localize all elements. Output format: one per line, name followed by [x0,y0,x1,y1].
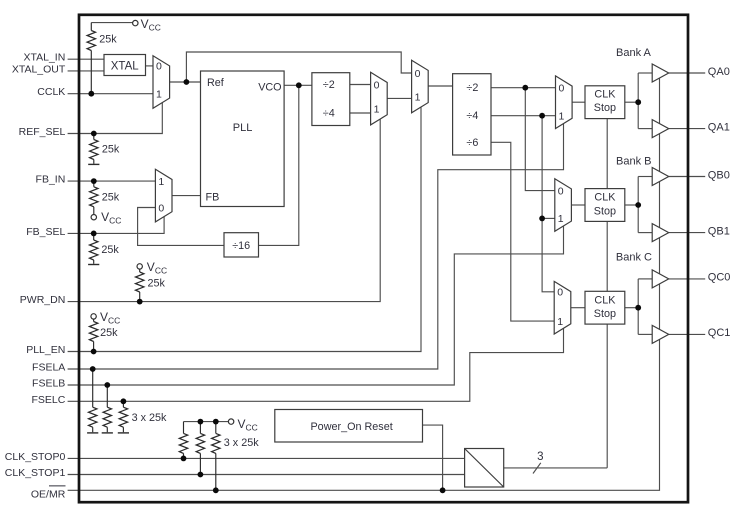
wire bank C buffer feed [637,279,639,335]
wire bypass mux output to output divider [428,85,452,87]
svg-text:PWR_DN: PWR_DN [20,294,66,306]
resistor 25k CCLK pullup [87,23,95,94]
svg-text:FSELA: FSELA [32,362,65,374]
wire div4 output to mux 1-port [350,112,371,114]
resistor 25k FB_SEL pulldown [89,233,97,263]
wire bank B mux to CLK Stop [571,204,585,206]
wire CLK Stop A output [625,101,638,103]
svg-text:QA1: QA1 [708,121,730,133]
wire XTAL_IN input [68,58,104,60]
svg-text:3 x 25k: 3 x 25k [224,437,259,449]
bank A select mux [556,76,573,129]
wire fb mux output to PLL FB input [172,195,201,197]
wire QB0 output [669,176,706,178]
svg-text:0: 0 [557,287,563,299]
node FB_IN junction [91,178,97,184]
ground FSELA [87,432,98,434]
resistor 25k REF_SEL pulldown [90,134,98,164]
svg-text:0: 0 [558,185,564,197]
clock stop synchronizer block [465,449,504,488]
Vcc terminal clock stop pullups [228,419,233,424]
svg-text:REF_SEL: REF_SEL [19,126,66,138]
svg-text:XTAL_IN: XTAL_IN [23,52,65,64]
CLK Stop block bank B [585,189,625,222]
wire bank A buffer feed [637,73,639,129]
svg-text:÷4: ÷4 [466,110,478,122]
svg-text:25k: 25k [100,327,118,339]
svg-text:VCO: VCO [258,81,281,93]
CLK Stop block bank C [585,291,625,324]
svg-text:÷6: ÷6 [466,137,478,149]
svg-text:0: 0 [415,68,421,80]
node VCO output junction [296,82,302,88]
wire CLK Stop C output [625,307,638,309]
XTAL oscillator block [104,55,146,76]
wire reference clock bypass to mux 0-port [186,52,411,82]
svg-text:1: 1 [559,111,565,123]
wire CLK_STOP0 to synchronizer [68,457,465,459]
ground REF_SEL [88,163,99,165]
svg-text:÷16: ÷16 [232,240,250,252]
resistor 25k PWR_DN pullup [136,269,144,301]
svg-text:3 x 25k: 3 x 25k [132,412,167,424]
wire div4 branch to bank C mux 0-port [542,116,554,292]
svg-text:FB_IN: FB_IN [36,174,66,186]
resistor 25k FB_IN pullup [90,181,98,214]
output buffer QB0 [652,168,669,186]
wire pullup rail to Vcc [184,421,229,423]
ground FB_SEL [88,264,99,266]
wire clock stop control bus vertical [606,119,608,468]
svg-text:FSELB: FSELB [32,378,65,390]
node CLK_STOP1 junction [198,472,204,478]
feedback divider div16 [224,233,259,257]
bus width slash [533,463,541,474]
PLL block U1 [201,71,285,207]
svg-text:PLL_EN: PLL_EN [26,344,65,356]
resistor 25k FSELA pulldown [88,369,96,432]
svg-text:FSELC: FSELC [31,394,65,406]
svg-text:Stop: Stop [594,102,616,114]
svg-text:1: 1 [158,176,164,188]
svg-text:Power_On Reset: Power_On Reset [310,421,392,433]
svg-text:Bank B: Bank B [616,156,651,168]
svg-text:3: 3 [537,451,543,463]
wire CCLK input to mux 1-port [68,93,153,95]
wire PLL_EN to bypass mux select [68,107,421,351]
Vcc terminal CCLK pullup [133,20,138,25]
svg-text:Stop: Stop [594,308,616,320]
wire vco divider mux output to bypass mux 1-port [387,97,411,99]
feedback mux (FB_IN/div16) [155,169,172,222]
wire CLK_STOP1 to synchronizer [68,474,465,476]
output buffer QA0 [652,64,669,82]
wire bank A mux to CLK Stop [572,101,585,103]
svg-text:FB: FB [206,192,220,204]
node REF_SEL junction [91,131,97,137]
node bank C buffer junction [635,305,641,311]
resistor 25k OE/MR pullup [212,422,220,491]
svg-text:25k: 25k [102,192,120,204]
wire bank B buffer feed [637,177,639,233]
wire Power_On Reset output to OE/MR line [423,425,443,490]
svg-text:0: 0 [374,79,380,91]
chip outline border [79,15,688,502]
output buffer QA1 [652,120,669,138]
svg-text:CLK_STOP1: CLK_STOP1 [5,467,66,479]
PLL bypass mux [412,60,429,113]
wire to QB1 buffer [638,232,652,234]
Vcc terminal FB_IN pullup [91,215,96,220]
svg-text:0: 0 [158,202,164,214]
node CCLK pullup junction [88,91,94,97]
svg-text:XTAL: XTAL [111,60,140,72]
wire QC0 output [669,278,706,280]
svg-text:1: 1 [374,103,380,115]
svg-text:25k: 25k [102,143,120,155]
wire QC1 output [669,333,706,335]
wire QA0 output [669,72,706,74]
VCO divider block div2/div4 [312,73,350,126]
node PWR_DN junction [137,299,143,305]
node FSELA junction [90,366,96,372]
VCO divider mux [371,72,388,125]
svg-text:QA0: QA0 [708,66,730,78]
svg-text:QC1: QC1 [708,327,731,339]
svg-text:÷2: ÷2 [323,79,335,91]
svg-text:QC0: QC0 [708,272,731,284]
wire XTAL osc output to ref mux 0-port [146,65,154,67]
svg-text:CCLK: CCLK [37,86,65,98]
svg-text:CLK: CLK [594,192,616,204]
Vcc terminal PWR_DN pullup [137,264,142,269]
wire ref mux output to PLL Ref input [170,81,201,83]
output divider block div2/div4/div6 [453,74,491,155]
resistor 25k FSELC pulldown [119,401,127,432]
svg-text:PLL: PLL [233,122,253,134]
svg-text:Stop: Stop [594,205,616,217]
svg-text:25k: 25k [99,34,117,46]
svg-text:Ref: Ref [207,77,225,89]
wire bank C mux to CLK Stop [571,307,585,309]
wire output div4 to bank A mux 1-port [491,115,556,117]
wire PWR_DN to vco divider mux select [68,119,381,301]
svg-text:OE/MR: OE/MR [31,488,66,500]
reference mux (XTAL/CCLK) [153,56,170,109]
wire FSELA to bank A mux select [68,123,564,369]
bank B select mux [555,179,572,232]
output buffer QC1 [652,325,669,343]
node POR to OE/MR junction [440,487,446,493]
svg-text:25k: 25k [148,277,166,289]
output buffer QB1 [652,224,669,242]
node CLK_STOP0 junction [181,456,187,462]
node pullup rail junction 2 [213,419,219,425]
svg-text:CLK_STOP0: CLK_STOP0 [5,451,66,463]
Power_On Reset block [275,410,423,443]
wire XTAL_OUT input [68,70,104,72]
bank C select mux [554,281,571,334]
wire VCO output to divider [284,84,312,86]
wire synchronizer output bus [504,467,608,469]
wire to QC0 buffer [638,278,652,280]
wire CLK Stop B output [625,204,638,206]
wire to QA1 buffer [638,128,652,130]
node reference clock junction [184,79,190,85]
wire to QA0 buffer [638,72,652,74]
svg-text:FB_SEL: FB_SEL [26,226,65,238]
wire CCLK pullup to Vcc [91,22,132,24]
wire QB1 output [669,232,706,234]
wire div4 branch to bank B mux 1-port [542,217,555,219]
wire FSELB to bank B mux select [68,226,564,385]
output buffer QC0 [652,270,669,288]
wire REF_SEL to ref mux select [68,102,163,134]
node bank A buffer junction [635,99,641,105]
resistor 25k PLL_EN pullup [89,319,97,351]
svg-text:0: 0 [156,61,162,73]
svg-text:Bank C: Bank C [616,252,652,264]
wire FB_IN to fb mux 1-port [68,180,156,182]
svg-text:1: 1 [415,92,421,104]
svg-text:CLK: CLK [594,294,616,306]
svg-text:1: 1 [557,316,563,328]
svg-text:÷2: ÷2 [466,82,478,94]
svg-text:1: 1 [558,213,564,225]
CLK Stop block bank A [585,86,625,119]
wire to QC1 buffer [638,333,652,335]
svg-text:QB0: QB0 [708,169,730,181]
node bank B buffer junction [635,202,641,208]
node div2 branch junction [522,85,528,91]
node FB_SEL junction [91,231,97,237]
ground FSELB [102,432,113,434]
resistor 25k FSELB pulldown [103,385,111,432]
node pullup rail junction 1 [198,419,204,425]
svg-text:XTAL_OUT: XTAL_OUT [12,63,66,75]
wire FSELC to bank C mux select [68,328,564,401]
node div4 bank B junction [539,216,545,222]
resistor 25k CLK_STOP0 pullup [179,422,187,459]
pin label OE/MR with overline [31,486,66,500]
resistor 25k CLK_STOP1 pullup [196,422,204,475]
svg-text:CLK: CLK [594,88,616,100]
wire output div6 to bank C mux 1-port [491,142,554,321]
ground FSELC [118,432,129,434]
node FSELB junction [104,382,110,388]
svg-text:25k: 25k [101,244,119,256]
wire div2 branch to bank B mux 0-port [525,88,555,191]
node OE/MR junction [213,487,219,493]
node div4 branch junction [539,113,545,119]
svg-text:1: 1 [156,89,162,101]
wire output div2 to bank A mux 0-port [491,87,556,89]
wire div2 output to mux 0-port [350,84,371,86]
wire to QB0 buffer [638,176,652,178]
svg-text:Bank A: Bank A [616,47,652,59]
wire div16 output to fb mux 0-port [138,208,224,246]
svg-text:÷4: ÷4 [323,108,335,120]
wire VCO to div16 input [259,85,299,245]
wire FB_SEL to fb mux select [68,217,165,234]
wire OE/MR output enable line to all buffers [68,78,660,490]
Vcc terminal PLL_EN pullup [91,314,96,319]
node FSELC junction [121,398,127,404]
svg-text:QB1: QB1 [708,225,730,237]
svg-text:0: 0 [559,83,565,95]
wire QA1 output [669,128,706,130]
node PLL_EN junction [91,349,97,355]
